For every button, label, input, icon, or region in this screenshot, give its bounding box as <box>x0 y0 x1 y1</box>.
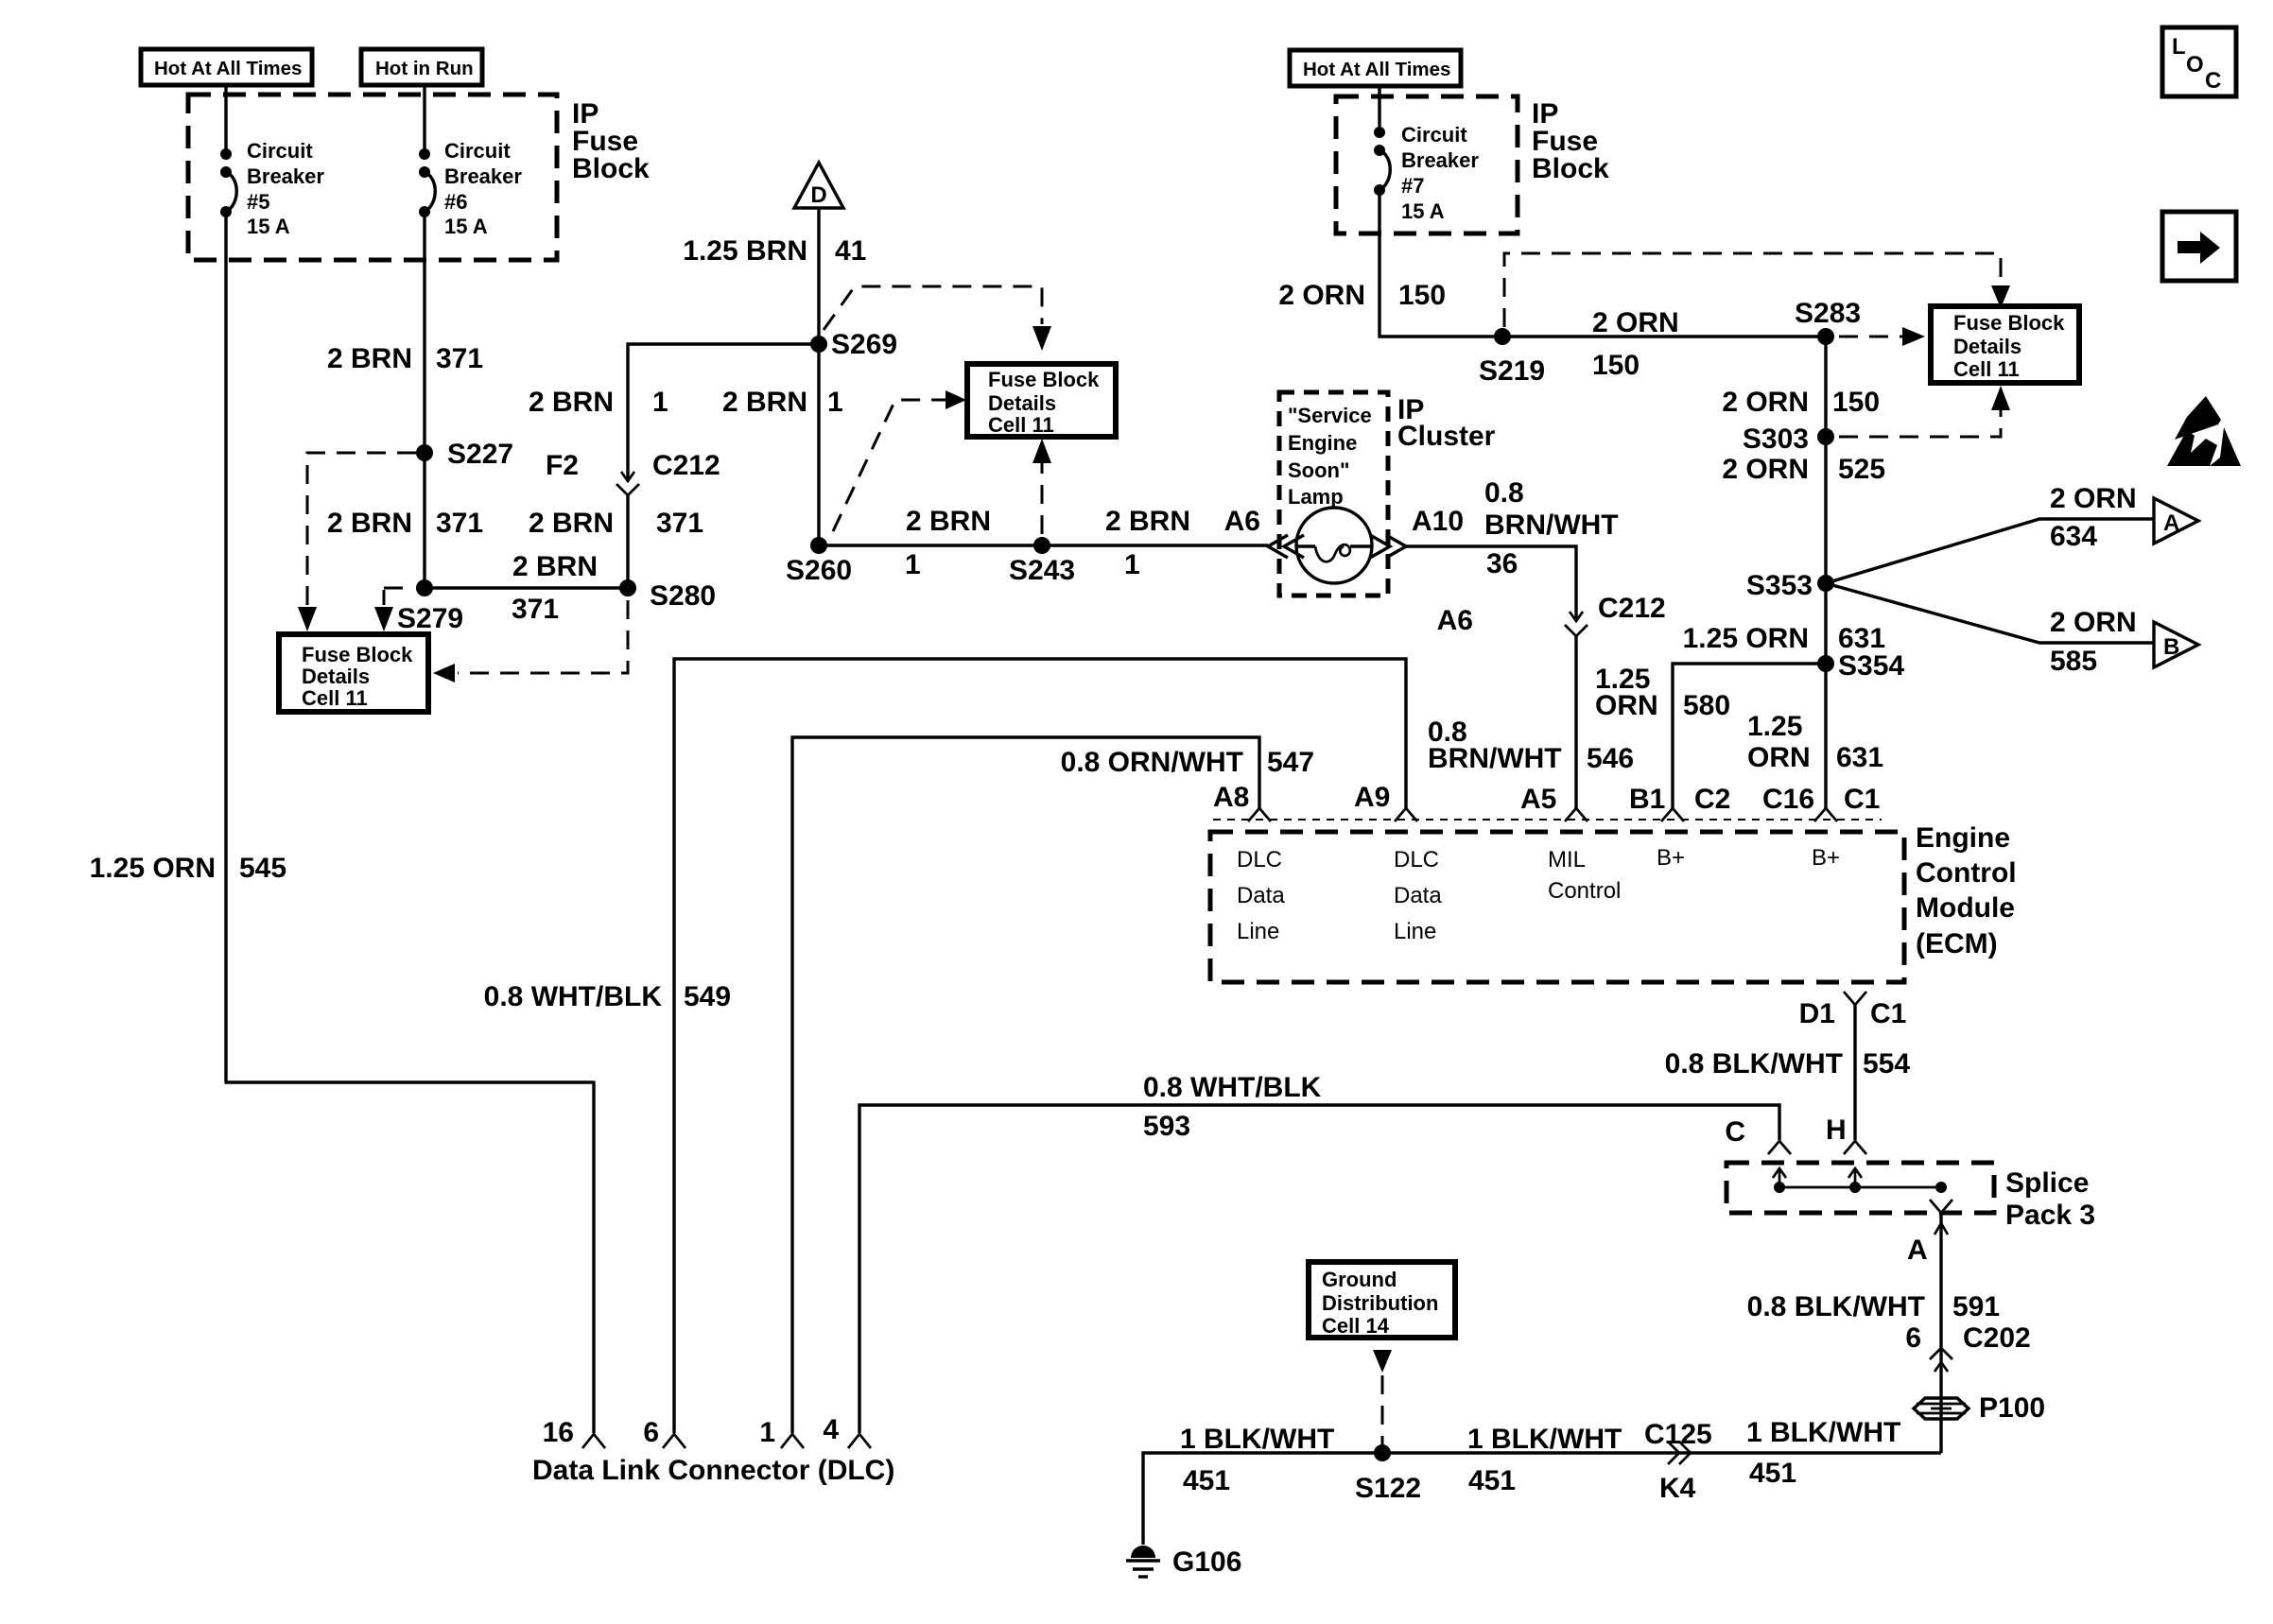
svg-text:#7: #7 <box>1401 174 1424 198</box>
node S283 <box>1795 298 1861 345</box>
svg-text:Hot At All Times: Hot At All Times <box>1303 59 1450 80</box>
svg-text:Splice: Splice <box>2005 1167 2089 1199</box>
svg-text:Circuit: Circuit <box>444 139 511 163</box>
label 1 BLK/WHT 451 (right) <box>1746 1417 1900 1489</box>
svg-text:6: 6 <box>1905 1322 1921 1354</box>
label 2 BRN 1 (S260-S243) <box>905 506 991 580</box>
label 2 BRN 371 (above S227) <box>327 343 483 374</box>
label MIL Control <box>1548 847 1621 904</box>
label 1.25 ORN 631 (S354 to C16) <box>1747 711 1883 773</box>
label 0.8 BLK/WHT 554 <box>1665 1048 1911 1080</box>
svg-text:371: 371 <box>656 508 703 539</box>
dashed reference from S227 to Fuse Block Details arrow <box>298 453 416 631</box>
svg-text:D1: D1 <box>1799 998 1835 1029</box>
label DLC Data Line (A9) <box>1394 847 1442 944</box>
label 1.25 ORN 580 <box>1595 664 1730 721</box>
wire S279 to S280 <box>425 586 628 589</box>
svg-text:0.8 WHT/BLK: 0.8 WHT/BLK <box>484 981 663 1012</box>
direction arrow on wire 591 <box>1935 1223 1948 1235</box>
svg-text:150: 150 <box>1592 350 1640 381</box>
label 2 BRN 1 (S269-S260) <box>722 387 843 418</box>
connector C212 pin F2 chevrons <box>546 450 720 495</box>
svg-text:Lamp: Lamp <box>1288 485 1344 509</box>
arrow into Fuse Block Details (right) top <box>1991 285 2010 308</box>
label IP Fuse Block (right) <box>1532 98 1609 184</box>
label 0.8 ORN/WHT 547 <box>1061 747 1314 778</box>
svg-text:2 BRN: 2 BRN <box>722 387 807 418</box>
wire S219 to S283 <box>1502 335 1826 337</box>
label 2 BRN 371 (S279-S280) <box>512 551 598 625</box>
wire from Hot At All Times into breaker #7 <box>1378 86 1380 132</box>
label 2 ORN 634 <box>2050 483 2137 552</box>
svg-text:Cell 11: Cell 11 <box>302 686 368 710</box>
node S219 <box>1479 328 1545 387</box>
svg-text:591: 591 <box>1952 1291 2000 1322</box>
label IP Fuse Block (left) <box>572 98 650 184</box>
label 1.25 ORN 631 (above S354) <box>1683 623 1885 654</box>
node Hot At All Times (left) <box>141 49 312 85</box>
svg-text:1.25 ORN: 1.25 ORN <box>90 853 216 884</box>
svg-text:547: 547 <box>1267 747 1314 778</box>
node S279 <box>397 579 463 634</box>
svg-text:ORN: ORN <box>1595 690 1658 721</box>
svg-text:MIL: MIL <box>1548 847 1586 872</box>
IP Cluster dashed box <box>1279 392 1388 596</box>
DLC pin 6 <box>643 1417 685 1448</box>
label IP Cluster <box>1397 394 1496 452</box>
svg-text:1: 1 <box>1124 549 1140 580</box>
label 2 ORN 525 <box>1722 454 1885 485</box>
ECM pin D1 chevron below box <box>1799 992 1907 1029</box>
label 0.8 BRN/WHT 36 <box>1484 477 1619 579</box>
svg-text:2 ORN: 2 ORN <box>1592 307 1679 338</box>
svg-text:0.8 BLK/WHT: 0.8 BLK/WHT <box>1665 1048 1843 1080</box>
ECM connector face dashed line <box>1213 819 1882 821</box>
svg-text:15 A: 15 A <box>444 215 488 238</box>
svg-text:549: 549 <box>684 981 731 1012</box>
wire breaker #6 down to S279 <box>423 212 425 588</box>
svg-text:525: 525 <box>1838 454 1885 485</box>
box Fuse Block Details Cell 11 (right) <box>1931 306 2079 383</box>
DLC pin 4 <box>823 1414 871 1448</box>
svg-text:K4: K4 <box>1659 1473 1696 1504</box>
bottom ground wire <box>1143 1453 1941 1545</box>
dashed reference at S279 down arrow <box>374 588 412 631</box>
off-page triangle D <box>794 163 843 208</box>
svg-text:L: L <box>2172 34 2186 60</box>
svg-text:0.8 BLK/WHT: 0.8 BLK/WHT <box>1747 1291 1925 1322</box>
svg-text:2 BRN: 2 BRN <box>327 508 412 539</box>
svg-text:150: 150 <box>1398 280 1446 311</box>
splice pack pin H <box>1826 1114 1866 1154</box>
svg-text:15 A: 15 A <box>247 215 290 238</box>
wire C212 down to pin A5 <box>1574 636 1577 809</box>
label 1 BLK/WHT 451 (middle) <box>1467 1424 1622 1496</box>
svg-text:S260: S260 <box>786 555 852 586</box>
wire S269 left then down (F2 C212 branch) <box>628 344 819 478</box>
ECM pin B1 <box>1629 784 1730 821</box>
ECM pin A9 <box>1354 782 1417 821</box>
svg-text:C: C <box>1725 1116 1745 1148</box>
svg-text:BRN/WHT: BRN/WHT <box>1484 510 1619 541</box>
connector C202 pin 6 chevrons <box>1905 1322 2030 1372</box>
label 0.8 BRN/WHT 546 <box>1428 717 1634 774</box>
svg-text:"Service: "Service <box>1288 404 1372 427</box>
svg-text:16: 16 <box>543 1417 574 1448</box>
svg-text:Hot At All Times: Hot At All Times <box>154 58 302 79</box>
svg-text:1.25: 1.25 <box>1747 711 1802 742</box>
svg-text:554: 554 <box>1863 1048 1910 1080</box>
svg-text:0.8 WHT/BLK: 0.8 WHT/BLK <box>1143 1072 1322 1103</box>
wire DLC pin 6 up and right to ECM pin A9 <box>674 659 1406 1433</box>
svg-text:B: B <box>2163 634 2179 660</box>
svg-text:634: 634 <box>2050 521 2097 552</box>
svg-text:Breaker: Breaker <box>1401 148 1479 172</box>
label 2 ORN 150 (above S303) <box>1722 387 1880 418</box>
svg-text:S279: S279 <box>397 603 463 634</box>
svg-text:2 BRN: 2 BRN <box>327 343 412 374</box>
svg-text:0.8: 0.8 <box>1484 477 1524 509</box>
svg-text:ORN: ORN <box>1747 742 1811 773</box>
node S243 <box>1009 537 1075 586</box>
svg-text:B1: B1 <box>1629 784 1665 815</box>
label 2 BRN 371 (below S227) <box>327 508 483 539</box>
svg-text:BRN/WHT: BRN/WHT <box>1428 743 1562 774</box>
svg-text:1: 1 <box>827 387 843 418</box>
off-page triangle B <box>2154 622 2198 667</box>
svg-text:Engine: Engine <box>1288 431 1357 455</box>
svg-text:O: O <box>2186 52 2204 78</box>
svg-text:A: A <box>1907 1235 1928 1266</box>
label 2 ORN 150 (breaker #7) <box>1278 280 1446 311</box>
svg-text:Cluster: Cluster <box>1397 421 1496 452</box>
label 2 ORN 585 <box>2050 607 2137 677</box>
wire from Hot At All Times into breaker #5 <box>224 85 227 155</box>
svg-text:A: A <box>2163 510 2179 536</box>
svg-text:4: 4 <box>823 1414 839 1445</box>
legend arrow box <box>2162 212 2236 281</box>
svg-text:C125: C125 <box>1644 1419 1712 1450</box>
wire ECM pin D1 down to splice pack pin H <box>1853 1004 1856 1140</box>
svg-text:B+: B+ <box>1657 845 1685 871</box>
label Engine Control Module (ECM) <box>1916 822 2017 959</box>
svg-text:Fuse Block: Fuse Block <box>988 368 1100 391</box>
dashed reference S260 diagonal to Fuse Block Details (mid) left arrow <box>833 390 966 531</box>
svg-text:2 ORN: 2 ORN <box>2050 607 2137 638</box>
svg-text:371: 371 <box>512 594 559 625</box>
svg-text:Control: Control <box>1548 878 1621 904</box>
wire DLC pin 4 up and right to splice pack pin C <box>859 1105 1779 1433</box>
svg-text:Details: Details <box>1953 335 2021 358</box>
svg-text:631: 631 <box>1836 742 1883 773</box>
dashed reference from S280 to Fuse Block Details left arrow <box>433 600 628 682</box>
grommet P100 <box>1914 1392 2045 1424</box>
wire S353 to off-page triangle A <box>1826 519 2154 583</box>
svg-text:1: 1 <box>905 549 921 580</box>
dashed reference S243 up to Fuse Block Details (mid) bottom arrow <box>1032 439 1051 534</box>
label Splice Pack 3 <box>2005 1167 2095 1231</box>
svg-text:S227: S227 <box>447 439 513 470</box>
svg-text:S303: S303 <box>1743 423 1809 455</box>
svg-text:Data Link Connector (DLC): Data Link Connector (DLC) <box>532 1455 894 1486</box>
svg-text:371: 371 <box>436 343 483 374</box>
svg-text:#6: #6 <box>444 190 467 214</box>
svg-text:2 ORN: 2 ORN <box>1722 454 1809 485</box>
splice pack internal bus <box>1773 1168 1947 1193</box>
svg-text:Breaker: Breaker <box>247 164 324 188</box>
splice pack pin C <box>1725 1116 1791 1154</box>
box Fuse Block Details Cell 11 (mid) <box>967 364 1116 437</box>
label 2 ORN 150 (S219-S283) <box>1592 307 1679 381</box>
wire corner to DLC pin 16 column <box>225 1080 595 1083</box>
Engine Control Module dashed box <box>1210 832 1904 982</box>
svg-text:Details: Details <box>988 391 1056 415</box>
dashed reference Ground Distribution down to S122 <box>1373 1350 1392 1444</box>
svg-text:DLC: DLC <box>1237 847 1282 872</box>
IP Fuse Block dashed box (left) <box>188 95 557 260</box>
label 1.25 BRN 41 <box>683 235 866 267</box>
svg-text:Hot in Run: Hot in Run <box>375 58 474 79</box>
svg-text:6: 6 <box>643 1417 659 1448</box>
off-page triangle A <box>2154 498 2198 544</box>
svg-text:Circuit: Circuit <box>247 139 313 163</box>
wire triangle D down to S260 <box>817 208 820 545</box>
svg-text:580: 580 <box>1683 690 1730 721</box>
svg-text:A10: A10 <box>1412 506 1464 537</box>
label DLC Data Line (A8) <box>1237 847 1285 944</box>
svg-text:545: 545 <box>239 853 286 884</box>
connector C125 pin K4 chevrons <box>1644 1419 1712 1504</box>
svg-text:C1: C1 <box>1844 784 1880 815</box>
svg-text:Line: Line <box>1394 919 1436 944</box>
node S122 <box>1355 1444 1421 1504</box>
svg-text:A6: A6 <box>1224 506 1260 537</box>
box Fuse Block Details Cell 11 (left) <box>279 634 428 712</box>
svg-text:P100: P100 <box>1979 1392 2045 1424</box>
svg-text:S283: S283 <box>1795 298 1861 329</box>
svg-text:Cell 11: Cell 11 <box>988 413 1054 437</box>
svg-text:0.8 ORN/WHT: 0.8 ORN/WHT <box>1061 747 1243 778</box>
ground G106 <box>1126 1546 1241 1578</box>
wire S353 to off-page triangle B <box>1826 583 2154 643</box>
svg-text:Cell 11: Cell 11 <box>1953 357 2020 381</box>
label 2 BRN 1 (S243-lamp) <box>1105 506 1190 580</box>
svg-text:Pack 3: Pack 3 <box>2005 1200 2095 1231</box>
wire S243 to lamp <box>1042 544 1268 546</box>
svg-text:Breaker: Breaker <box>444 164 522 188</box>
svg-text:593: 593 <box>1143 1111 1190 1142</box>
svg-text:#5: #5 <box>247 190 269 214</box>
svg-text:S269: S269 <box>831 329 897 360</box>
svg-text:451: 451 <box>1183 1465 1230 1496</box>
circuit breaker #5 <box>220 139 324 238</box>
splice pack pin A chevron <box>1930 1200 1952 1213</box>
svg-text:C16: C16 <box>1762 784 1814 815</box>
dashed reference S303 right and up arrow into Fuse Block Details <box>1839 386 2010 437</box>
svg-text:1 BLK/WHT: 1 BLK/WHT <box>1467 1424 1622 1455</box>
wire S283 down to ECM pin C16 <box>1824 337 1827 809</box>
DLC pin 1 <box>759 1417 804 1448</box>
wire splice pack pin A down through C202 and P100 <box>1939 1212 1942 1453</box>
svg-text:Block: Block <box>572 153 650 184</box>
wire DLC pin 1 up and right to ECM pin A8 <box>792 737 1259 1433</box>
svg-text:Line: Line <box>1237 919 1279 944</box>
svg-text:A5: A5 <box>1520 784 1556 815</box>
svg-text:2 BRN: 2 BRN <box>1105 506 1190 537</box>
box Ground Distribution Cell 14 <box>1309 1262 1455 1338</box>
node S353 <box>1746 570 1834 601</box>
svg-text:Ground: Ground <box>1322 1268 1397 1291</box>
lamp connector chevrons (left) <box>1268 535 1304 558</box>
label Service Engine Soon Lamp <box>1288 404 1372 509</box>
svg-text:Soon": Soon" <box>1288 458 1349 482</box>
svg-text:Distribution: Distribution <box>1322 1291 1438 1315</box>
svg-text:Details: Details <box>302 665 370 688</box>
wire S354 left and down to ECM pin B1 <box>1673 664 1826 809</box>
svg-text:2 BRN: 2 BRN <box>512 551 598 582</box>
wire lamp A10 right then down through C212 to ECM pin A5 <box>1406 546 1576 618</box>
node S260 <box>786 537 852 586</box>
svg-text:A8: A8 <box>1213 782 1249 813</box>
ESD warning symbol <box>2167 396 2241 466</box>
svg-text:Data: Data <box>1394 883 1442 908</box>
label 1 BLK/WHT 451 (left) <box>1180 1424 1334 1496</box>
node S269 <box>810 329 897 360</box>
svg-text:DLC: DLC <box>1394 847 1439 872</box>
svg-text:C212: C212 <box>652 450 720 481</box>
svg-text:2 BRN: 2 BRN <box>906 506 991 537</box>
label 0.8 BLK/WHT 591 <box>1747 1291 2000 1322</box>
svg-text:1 BLK/WHT: 1 BLK/WHT <box>1180 1424 1334 1455</box>
svg-text:Block: Block <box>1532 153 1609 184</box>
legend LOC box <box>2162 27 2236 96</box>
node Hot At All Times (right) <box>1290 50 1461 86</box>
ECM pin A8 <box>1213 782 1271 821</box>
circuit breaker #6 <box>419 139 522 238</box>
svg-text:S219: S219 <box>1479 355 1545 387</box>
ECM pin A5 <box>1520 784 1588 821</box>
svg-text:C212: C212 <box>1598 593 1666 624</box>
svg-text:451: 451 <box>1468 1465 1516 1496</box>
dashed reference S269 to Fuse Block Details (mid) top arrow <box>824 286 1051 351</box>
svg-text:2 ORN: 2 ORN <box>2050 483 2137 514</box>
svg-text:546: 546 <box>1587 743 1634 774</box>
wire breaker #7 down and right to S219 <box>1379 190 1502 337</box>
wire from Hot in Run into breaker #6 <box>423 85 425 155</box>
svg-text:S122: S122 <box>1355 1473 1421 1504</box>
lamp connector chevrons (right) <box>1370 535 1406 558</box>
wire down to DLC pin 16 <box>592 1081 595 1434</box>
label 0.8 WHT/BLK 593 <box>1143 1072 1322 1142</box>
svg-text:2 BRN: 2 BRN <box>529 387 614 418</box>
svg-text:C202: C202 <box>1963 1322 2031 1354</box>
Service Engine Soon lamp <box>1296 508 1372 583</box>
dashed reference S283 right arrow into Fuse Block Details <box>1839 327 1925 346</box>
svg-text:Cell 14: Cell 14 <box>1322 1314 1390 1338</box>
node S280 <box>619 579 716 612</box>
svg-text:Control: Control <box>1916 857 2017 889</box>
svg-text:2 ORN: 2 ORN <box>1722 387 1809 418</box>
dashed fuse block boundary through S219 <box>1504 253 2001 327</box>
svg-text:36: 36 <box>1486 548 1518 579</box>
svg-text:A9: A9 <box>1354 782 1390 813</box>
svg-text:C1: C1 <box>1870 998 1906 1029</box>
svg-text:Data: Data <box>1237 883 1285 908</box>
svg-text:15 A: 15 A <box>1401 199 1445 223</box>
svg-text:D: D <box>810 182 826 208</box>
svg-text:C2: C2 <box>1694 784 1730 815</box>
wire S260 to S243 <box>819 544 1042 546</box>
svg-text:2 ORN: 2 ORN <box>1278 280 1365 311</box>
node S303 <box>1743 423 1834 455</box>
svg-text:150: 150 <box>1832 387 1880 418</box>
svg-text:G106: G106 <box>1172 1546 1241 1578</box>
wire breaker #5 down to corner (1.25 ORN 545) <box>224 212 227 1082</box>
svg-text:A6: A6 <box>1437 605 1473 636</box>
connector C212 pin A6 chevrons (lamp to ECM) <box>1437 593 1666 636</box>
svg-text:S354: S354 <box>1838 650 1904 682</box>
wire C212 down to S280 <box>626 495 629 588</box>
svg-text:1: 1 <box>652 387 668 418</box>
svg-text:1 BLK/WHT: 1 BLK/WHT <box>1746 1417 1900 1448</box>
label 2 BRN 371 (below C212) <box>529 508 703 539</box>
node Hot in Run <box>361 49 482 85</box>
circuit breaker #7 <box>1374 123 1479 223</box>
svg-text:1: 1 <box>759 1417 775 1448</box>
svg-text:S280: S280 <box>650 580 716 612</box>
svg-text:Module: Module <box>1916 892 2015 924</box>
svg-text:585: 585 <box>2050 646 2097 677</box>
svg-text:41: 41 <box>835 235 866 267</box>
svg-text:Fuse Block: Fuse Block <box>1953 311 2065 335</box>
svg-text:Fuse Block: Fuse Block <box>302 643 413 666</box>
node S227 <box>416 439 513 470</box>
svg-text:S243: S243 <box>1009 555 1075 586</box>
svg-text:C: C <box>2205 68 2221 94</box>
svg-text:F2: F2 <box>546 450 579 481</box>
IP Fuse Block dashed box (right) <box>1336 96 1518 233</box>
svg-text:451: 451 <box>1749 1458 1796 1489</box>
label 2 BRN 1 (above C212) <box>529 387 668 418</box>
label 0.8 WHT/BLK 549 <box>484 981 731 1012</box>
node S354 <box>1817 650 1904 682</box>
svg-text:H: H <box>1826 1114 1847 1146</box>
ECM pin C16 <box>1762 784 1880 821</box>
svg-text:371: 371 <box>436 508 483 539</box>
svg-text:1.25 ORN: 1.25 ORN <box>1683 623 1809 654</box>
svg-text:B+: B+ <box>1812 845 1840 871</box>
svg-text:Circuit: Circuit <box>1401 123 1467 147</box>
svg-text:(ECM): (ECM) <box>1916 928 1998 959</box>
svg-text:Engine: Engine <box>1916 822 2010 854</box>
DLC pin 16 <box>543 1417 605 1448</box>
Splice Pack 3 dashed box <box>1726 1163 1994 1213</box>
svg-text:1.25 BRN: 1.25 BRN <box>683 235 807 267</box>
svg-text:2 BRN: 2 BRN <box>529 508 614 539</box>
label 1.25 ORN 545 <box>90 853 286 884</box>
svg-text:S353: S353 <box>1746 570 1813 601</box>
